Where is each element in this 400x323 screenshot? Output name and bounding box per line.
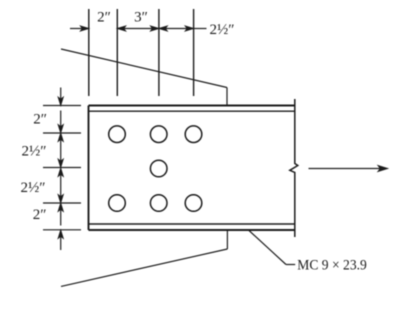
leader dash to MC label — [286, 264, 295, 266]
dimension double arrow 2.5in (between col lines 3 and 4) — [159, 26, 193, 31]
bolt hole row1 col1 — [109, 126, 126, 143]
left extension line at hole row3 — [43, 202, 81, 204]
left extension line at channel top — [43, 105, 81, 107]
gusset plate bottom edge diagonal — [61, 249, 227, 286]
gusset plate top edge diagonal — [61, 49, 227, 88]
svg-text:2″: 2″ — [33, 207, 47, 223]
gusset plate bottom edge vertical drop — [226, 230, 228, 249]
bolt hole row3 col2 — [150, 195, 167, 212]
dimension double arrow 3in (between col lines 2 and 3) — [118, 26, 159, 31]
svg-text:2½″: 2½″ — [210, 22, 235, 38]
left arrow pointing down at channel top line — [58, 88, 63, 106]
bolt hole middle (col2) — [150, 160, 167, 177]
bolt hole row1 col3 — [185, 126, 202, 143]
svg-text:2½″: 2½″ — [22, 144, 47, 160]
channel top flange outer edge — [89, 105, 295, 107]
top extension line at channel left edge — [88, 9, 90, 96]
top extension line at bolt column 2 — [158, 9, 160, 96]
channel bottom flange inner line — [89, 223, 295, 225]
left extension line at hole row1 — [43, 132, 81, 134]
left double arrow 2.5in (row2 to row3) — [58, 169, 63, 203]
left double arrow 2.5in (row1 to row2) — [58, 134, 63, 168]
leader line to MC label — [249, 231, 286, 265]
gusset plate top edge vertical drop — [226, 88, 228, 106]
svg-text:MC 9 × 23.9: MC 9 × 23.9 — [297, 258, 367, 274]
load arrow at right — [309, 166, 388, 171]
channel bottom flange outer edge — [89, 229, 295, 231]
svg-text:2½″: 2½″ — [21, 180, 46, 196]
svg-text:2″: 2″ — [33, 112, 47, 128]
left extension line at channel bottom — [43, 229, 81, 231]
bolt hole row3 col3 — [185, 195, 202, 212]
channel top flange inner line — [89, 110, 295, 112]
left arrow pointing down at row1 line — [58, 111, 63, 133]
left arrow pointing up at channel bottom line — [58, 231, 63, 251]
top dimension arrow pointing right at left edge line — [70, 26, 88, 31]
channel right break line with zigzag — [290, 99, 298, 237]
svg-text:3″: 3″ — [134, 9, 148, 25]
svg-text:2″: 2″ — [97, 10, 111, 26]
left extension line at hole row2 — [43, 167, 81, 169]
leader dash to 2.5in label — [194, 28, 207, 30]
left arrow pointing up at row3 line — [58, 204, 63, 226]
channel left edge — [88, 106, 90, 231]
bolt hole row1 col2 — [150, 126, 167, 143]
top extension line at bolt column 1 — [116, 9, 118, 96]
top extension line at bolt column 3 — [193, 9, 195, 96]
bolt hole row3 col1 — [109, 195, 126, 212]
